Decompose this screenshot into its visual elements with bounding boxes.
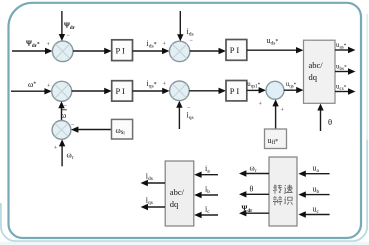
svg-text:abc/: abc/ — [309, 60, 324, 70]
wire u_b input — [298, 191, 329, 197]
wire i_ds feedback (vertical) — [177, 11, 183, 41]
svg-text:dq: dq — [170, 199, 179, 209]
svg-text:+: + — [163, 82, 167, 88]
wire PI4 to node 5 — [247, 87, 266, 93]
wire node3 to PI2 — [72, 88, 112, 94]
wire u_ff feedforward (vertical) — [272, 99, 278, 129]
summing junction 5 — [266, 81, 284, 99]
wire node2 to PI3 — [190, 48, 226, 54]
PI controller 4 — [226, 81, 247, 101]
svg-text:θ: θ — [250, 185, 254, 194]
wire omega* input — [11, 88, 52, 94]
outer shadow rounded border — [1, 140, 367, 241]
wire u_bs* output — [335, 68, 356, 74]
outer shadow right edge (faint) — [366, 14, 368, 140]
summing junction 2 — [169, 41, 189, 61]
svg-text:dq: dq — [309, 72, 318, 82]
wire omega_r into node 6 (vertical) — [59, 139, 65, 166]
summing junction 4 — [170, 81, 190, 101]
summing junction 3 — [52, 81, 72, 101]
wire omega_r_hat output — [239, 170, 269, 176]
slip calculator block omega_sl — [112, 119, 133, 139]
PI controller 3 — [226, 40, 247, 61]
wire psi_dr_hat output — [239, 210, 269, 216]
svg-text:abc/: abc/ — [170, 187, 185, 197]
wire PI2 to node 4 — [133, 88, 170, 94]
feedforward block Uff — [265, 129, 287, 149]
wire node5 to abc/dq — [284, 87, 304, 93]
svg-text:ω: ω — [61, 111, 66, 120]
wire i_b input — [194, 192, 218, 198]
wire u_as* output — [335, 47, 356, 53]
footer tint strip — [0, 242, 369, 245]
wire i_qs output — [141, 204, 165, 210]
wire i_ds output — [141, 180, 166, 186]
svg-text:P I: P I — [230, 86, 240, 96]
wire PI1 to node 2 — [133, 48, 170, 54]
wire theta_hat output — [239, 191, 269, 197]
PI controller 2 — [112, 81, 133, 101]
abc/dq current transform block U2 — [165, 161, 194, 226]
wire u_c input — [298, 211, 329, 217]
wire psi_dr feedback (vertical) — [59, 11, 65, 41]
wire node4 to PI4 — [189, 88, 226, 94]
wire u_a input — [298, 171, 329, 177]
wire slip speed to node 6 — [71, 126, 112, 132]
wire i_qs feedback (vertical) — [176, 101, 182, 129]
speed identification block (zhuan su bian shi) — [239, 157, 330, 226]
wire theta into abc/dq (vertical) — [317, 104, 323, 132]
label omega_hat — [61, 110, 67, 120]
svg-text:θ: θ — [328, 117, 332, 127]
abc/dq transform block U1 — [304, 40, 336, 103]
wire node1 to PI1 — [73, 48, 112, 54]
wire u_ds* to abc/dq — [247, 47, 304, 53]
wire i_a input — [194, 172, 218, 178]
svg-text:+: + — [54, 146, 58, 152]
wire omega_hat feedback (vertical) — [58, 101, 64, 120]
svg-text:P I: P I — [116, 86, 126, 96]
wire psi_dr* input — [12, 48, 53, 54]
PI controller 1 — [112, 40, 133, 61]
summing junction 6 — [52, 120, 71, 139]
wire i_c input — [194, 212, 218, 218]
svg-text:P I: P I — [116, 45, 126, 55]
summing junction 1 — [52, 41, 73, 62]
svg-text:P I: P I — [230, 45, 240, 55]
wire u_cs* output — [335, 88, 356, 94]
